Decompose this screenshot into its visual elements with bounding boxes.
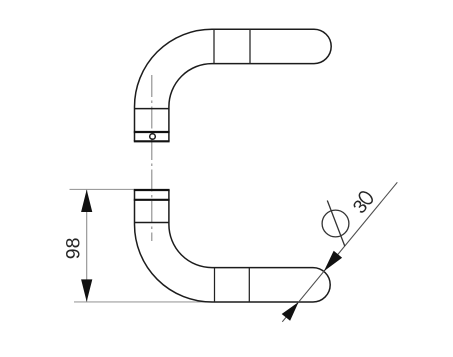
top handle bottom edge — [134, 140, 170, 142]
top handle joint line 1 — [213, 29, 215, 63]
top handle outline — [135, 29, 332, 141]
top handle joint line 2 — [249, 29, 251, 63]
diameter symbol slash — [327, 201, 345, 247]
extension line bottom (dim 98) — [74, 301, 212, 303]
leader arrowhead lower — [282, 302, 299, 321]
arrowhead 98 top — [81, 190, 92, 212]
arrowhead 98 bottom — [81, 279, 92, 301]
bottom handle outline — [135, 190, 331, 302]
top handle collar line — [135, 108, 169, 110]
leader line diameter 30 — [282, 182, 397, 321]
bottom handle joint line 2 — [248, 268, 250, 302]
bottom handle band lower line — [134, 199, 170, 201]
svg-text:98: 98 — [63, 238, 85, 260]
diameter symbol circle — [322, 210, 349, 237]
grub screw hole — [150, 134, 156, 140]
bottom handle joint line 1 — [214, 268, 216, 302]
dimension text 30 digit 0 — [357, 190, 374, 206]
dimension line 98 — [86, 190, 88, 302]
leader arrowhead upper — [324, 251, 342, 272]
extension line top (dim 98) — [70, 188, 135, 190]
bottom handle collar line — [135, 222, 169, 224]
bottom handle top edge — [134, 189, 170, 191]
centerline (vertical axis of grip ends) — [151, 75, 153, 241]
top handle band upper line — [134, 131, 170, 133]
